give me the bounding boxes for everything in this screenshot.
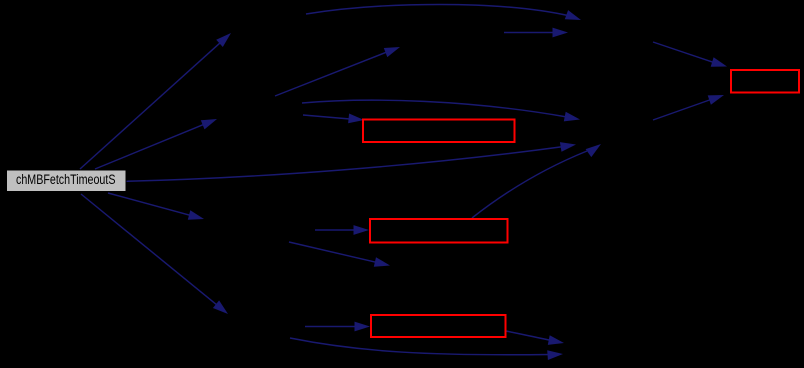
edge node N7 to node N5 [504,28,568,38]
node chMBFetchTimeoutS (current function, grey) [7,170,127,192]
edge chMBFetchTimeoutS to node N3 [108,193,204,220]
red box R4 (truncated callee) [731,70,799,93]
edge red box R2 to node N6 (gamma) [472,144,601,218]
edge node N5 to red box R4 top [653,42,727,67]
edge chMBFetchTimeoutS to node N1 [80,33,231,169]
edge node N3 to node N8 [289,242,390,267]
edge node N2 to red box R1 [303,114,364,124]
edge node N4 to node N9 (bottom curve) [290,338,563,360]
edge chMBFetchTimeoutS to node N6 (long) [126,142,576,181]
edge chMBFetchTimeoutS to node N2 [95,119,217,169]
edge node N3 to red box R2 [315,225,369,235]
red box R2 (truncated callee) [370,219,508,243]
edge node N6 to red box R4 bottom [653,95,724,120]
edge node N2 to node N6 (alpha) [302,100,580,121]
red box R3 (truncated callee) [371,315,506,337]
svg-text:chMBFetchTimeoutS: chMBFetchTimeoutS [16,172,116,187]
edge node N4 to red box R3 [305,322,370,332]
red box R1 (truncated callee) [363,120,515,143]
edge node N2 to node N7 [275,47,400,96]
edge red box R3 to node N9 [506,331,564,345]
edge chMBFetchTimeoutS to node N4 [81,194,228,314]
edge node N1 to node N5 (top curve) [306,5,581,21]
